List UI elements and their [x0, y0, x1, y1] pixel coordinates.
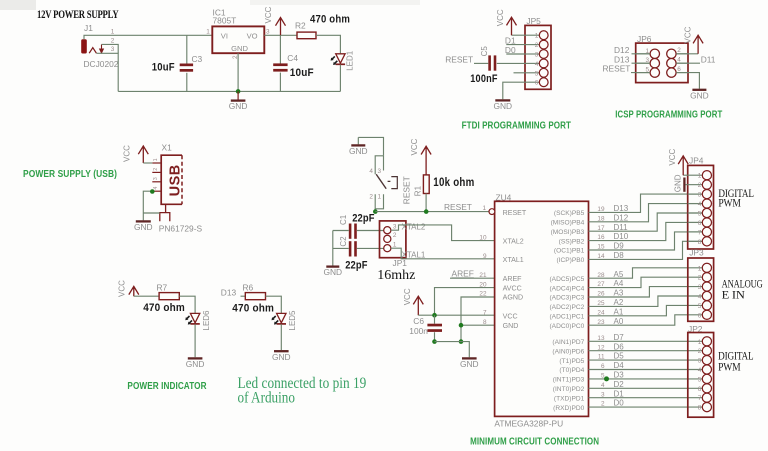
svg-text:(INT1)PD3: (INT1)PD3	[553, 377, 585, 384]
wire J1 pin1 to 7805 input (12V rail)	[84, 35, 212, 39]
svg-text:(INT0)PD2: (INT0)PD2	[553, 386, 585, 393]
svg-text:VCC: VCC	[264, 6, 273, 23]
svg-text:(AIN0)PD6: (AIN0)PD6	[552, 348, 584, 355]
svg-text:6: 6	[535, 80, 539, 87]
junction C6 to ground net	[432, 339, 437, 344]
svg-text:ICSP PROGRAMMING PORT: ICSP PROGRAMMING PORT	[615, 110, 722, 121]
svg-text:VCC: VCC	[684, 26, 693, 43]
svg-text:D12: D12	[614, 213, 629, 222]
svg-text:1: 1	[698, 173, 702, 180]
svg-text:10k ohm: 10k ohm	[433, 176, 474, 189]
svg-text:C1: C1	[339, 214, 348, 225]
resistor R7 470 ohm	[134, 295, 159, 297]
svg-text:A5: A5	[614, 270, 624, 279]
svg-text:(MISO)PB4: (MISO)PB4	[551, 220, 585, 227]
svg-text:VCC: VCC	[496, 9, 505, 26]
svg-text:VO: VO	[247, 32, 258, 41]
power symbol VCC power indicator	[129, 286, 139, 296]
svg-text:(ADC1)PC1: (ADC1)PC1	[549, 314, 584, 321]
svg-text:(SCK)PB5: (SCK)PB5	[554, 210, 585, 217]
svg-text:DCJ0202: DCJ0202	[84, 59, 119, 69]
svg-text:XTAL2: XTAL2	[402, 222, 426, 231]
svg-text:X1: X1	[162, 143, 173, 153]
svg-text:D7: D7	[614, 333, 625, 342]
svg-text:7: 7	[698, 395, 702, 402]
svg-text:J1: J1	[84, 23, 93, 33]
svg-text:2: 2	[677, 47, 681, 54]
svg-text:2: 2	[153, 168, 159, 171]
svg-text:(TXD)PD1: (TXD)PD1	[554, 395, 585, 402]
ground symbol at JP4 pin2 rotated	[686, 184, 688, 186]
svg-text:VCC: VCC	[410, 138, 419, 155]
svg-text:22pF: 22pF	[345, 259, 368, 271]
svg-text:D2: D2	[614, 380, 625, 389]
ground symbol below LED5	[274, 350, 289, 352]
ground symbol below C6	[462, 357, 477, 359]
svg-text:2: 2	[111, 37, 115, 44]
svg-text:(T1)PD5: (T1)PD5	[559, 358, 584, 365]
svg-text:2: 2	[698, 182, 702, 189]
junction X1 pin4	[150, 189, 155, 194]
svg-text:D8: D8	[614, 251, 625, 260]
junction AVCC VCC	[432, 313, 437, 318]
svg-text:(OC1)PB1: (OC1)PB1	[554, 248, 585, 255]
svg-text:22: 22	[479, 291, 487, 298]
power symbol VCC at ATMEGA	[413, 296, 423, 315]
svg-text:GND: GND	[323, 267, 342, 277]
svg-text:19: 19	[597, 206, 605, 213]
svg-text:6: 6	[601, 363, 605, 370]
svg-text:25: 25	[597, 300, 605, 307]
svg-text:C5: C5	[480, 46, 489, 57]
LED LED6	[190, 313, 199, 322]
svg-text:(RXD)PD0: (RXD)PD0	[553, 405, 584, 412]
svg-text:GND: GND	[690, 90, 709, 100]
LED LED5	[277, 313, 286, 322]
wire 7805 output 5V rail	[264, 34, 297, 36]
wire J1 pin3 to ground rail	[96, 53, 118, 91]
wire JP5 pin6 to ground	[503, 82, 525, 99]
svg-text:12V POWER SUPPLY: 12V POWER SUPPLY	[37, 9, 119, 21]
svg-text:A4: A4	[614, 279, 624, 288]
power symbol VCC at JP5 pin1	[512, 34, 526, 36]
power symbol VCC at JP6 pin2	[676, 53, 698, 55]
svg-text:FTDI PROGRAMMING PORT: FTDI PROGRAMMING PORT	[462, 121, 572, 132]
svg-text:17: 17	[597, 225, 605, 232]
svg-text:D3: D3	[614, 371, 625, 380]
svg-text:4: 4	[698, 201, 702, 208]
svg-text:R6: R6	[243, 283, 254, 293]
svg-text:GND: GND	[503, 322, 519, 330]
junction AGND GND	[459, 323, 464, 328]
svg-text:11: 11	[598, 354, 605, 361]
svg-text:24: 24	[597, 309, 605, 316]
svg-text:VCC: VCC	[123, 145, 132, 162]
capacitor C6 100n decoupling	[434, 315, 436, 324]
svg-text:7: 7	[698, 229, 702, 236]
svg-text:13: 13	[597, 335, 605, 342]
svg-text:3: 3	[698, 284, 702, 291]
svg-text:10: 10	[479, 234, 487, 241]
svg-text:470 ohm: 470 ohm	[143, 302, 185, 314]
svg-text:C4: C4	[287, 53, 298, 63]
svg-text:A0: A0	[614, 317, 624, 326]
ground net wire	[435, 342, 470, 358]
svg-text:4: 4	[601, 382, 605, 389]
svg-text:3: 3	[153, 177, 159, 180]
wire 7805 GND pin to ground rail	[237, 53, 239, 91]
svg-text:LED1: LED1	[346, 50, 355, 71]
svg-text:GND: GND	[493, 101, 512, 111]
capacitor C3 10uF	[186, 35, 188, 64]
svg-text:2: 2	[369, 194, 373, 201]
svg-text:1: 1	[698, 265, 702, 272]
LED LED1	[336, 54, 345, 63]
svg-text:2: 2	[601, 401, 605, 408]
svg-text:1: 1	[698, 339, 702, 346]
svg-text:27: 27	[597, 281, 605, 288]
svg-text:RESET: RESET	[503, 209, 527, 217]
svg-text:18: 18	[597, 215, 605, 222]
svg-text:E IN: E IN	[722, 290, 746, 302]
svg-text:ATMEGA328P-PU: ATMEGA328P-PU	[494, 418, 563, 428]
svg-text:26: 26	[597, 291, 605, 298]
svg-text:5: 5	[698, 376, 702, 383]
svg-text:4: 4	[369, 168, 373, 175]
resistor R1 10k ohm pullup	[423, 175, 429, 194]
wires A5-A0 from ATMEGA to JP3 with pin numbers	[589, 268, 703, 278]
wires D13-D8 from ATMEGA to JP4 with pin numbers	[589, 194, 703, 212]
svg-text:VCC: VCC	[503, 313, 518, 321]
svg-text:470 ohm: 470 ohm	[232, 303, 274, 315]
svg-text:A3: A3	[614, 289, 624, 298]
svg-text:8: 8	[698, 239, 702, 246]
svg-text:RESET: RESET	[402, 176, 412, 204]
svg-text:JP3: JP3	[689, 248, 704, 258]
X1 shield tab	[160, 204, 170, 221]
resistor R6 470 ohm	[241, 295, 246, 297]
wire VCC to X1 pin1	[143, 162, 152, 164]
wire XTAL2 JP1 pin3 to ATMEGA pin10	[391, 225, 495, 241]
power symbol VCC above R1	[421, 146, 431, 175]
svg-text:D10: D10	[614, 232, 629, 241]
svg-text:12: 12	[597, 344, 605, 351]
svg-text:3: 3	[601, 391, 605, 398]
svg-text:D11: D11	[614, 223, 629, 232]
wire reset switch top to ground	[358, 137, 383, 155]
svg-text:3: 3	[266, 28, 270, 35]
svg-text:3: 3	[535, 52, 539, 59]
svg-text:POWER SUPPLY (USB): POWER SUPPLY (USB)	[23, 169, 117, 180]
svg-text:D13: D13	[614, 204, 629, 213]
svg-text:XTAL1: XTAL1	[503, 256, 524, 264]
svg-text:POWER INDICATOR: POWER INDICATOR	[127, 381, 207, 392]
svg-text:1: 1	[153, 158, 159, 161]
svg-text:MINIMUM CIRCUIT CONNECTION: MINIMUM CIRCUIT CONNECTION	[470, 437, 599, 448]
svg-text:GND: GND	[186, 359, 205, 369]
svg-text:(ADC3)PC3: (ADC3)PC3	[549, 295, 584, 302]
svg-text:23: 23	[597, 319, 605, 326]
svg-text:1: 1	[111, 28, 115, 35]
svg-text:16mhz: 16mhz	[377, 268, 415, 283]
svg-text:4: 4	[153, 187, 159, 190]
svg-text:RESET: RESET	[445, 55, 473, 65]
svg-text:28: 28	[597, 272, 605, 279]
svg-text:AVCC: AVCC	[503, 284, 522, 292]
svg-text:1: 1	[378, 194, 382, 201]
svg-text:6: 6	[698, 386, 702, 393]
svg-text:A2: A2	[614, 298, 624, 307]
ATMEGA pin 1 RESET with bubble	[489, 209, 495, 215]
svg-text:D5: D5	[614, 352, 625, 361]
junction ground rail at 7805	[236, 89, 241, 94]
svg-text:(ADC2)PC2: (ADC2)PC2	[549, 304, 584, 311]
wire C1 C2 to ground	[332, 231, 334, 266]
svg-text:3: 3	[378, 168, 382, 175]
svg-text:D4: D4	[614, 361, 625, 370]
svg-text:5: 5	[698, 211, 702, 218]
svg-text:R2: R2	[295, 21, 306, 31]
svg-text:22pF: 22pF	[352, 212, 375, 224]
ground symbol below JP6	[692, 89, 706, 91]
svg-text:2: 2	[698, 348, 702, 355]
svg-text:RESET: RESET	[444, 202, 472, 212]
svg-text:6: 6	[698, 220, 702, 227]
capacitor C5 100nF to JP5 pin4	[497, 62, 525, 64]
wire VCC to ATMEGA pin7	[418, 314, 494, 316]
power symbol VCC for USB	[138, 146, 148, 163]
svg-text:21: 21	[479, 272, 487, 279]
svg-text:A1: A1	[614, 307, 624, 316]
junction R1 to RESET net	[424, 209, 429, 214]
svg-text:R1: R1	[413, 185, 422, 196]
ground rail bottom of power supply	[118, 90, 340, 92]
capacitor C4 10uF	[279, 35, 281, 64]
svg-text:14: 14	[597, 253, 605, 260]
svg-text:2: 2	[698, 275, 702, 282]
svg-text:8: 8	[483, 319, 487, 326]
wire R2 to LED1	[316, 35, 340, 53]
svg-text:XTAL1: XTAL1	[402, 251, 426, 260]
svg-text:100n: 100n	[409, 326, 428, 336]
stub JP5 pin5	[514, 72, 526, 74]
svg-text:9: 9	[483, 253, 487, 260]
svg-text:PN61729-S: PN61729-S	[159, 223, 203, 233]
svg-text:15: 15	[597, 244, 605, 251]
reset push button S1	[375, 156, 383, 174]
wire AGND pin22 to ground net	[461, 297, 495, 342]
svg-text:GND: GND	[272, 352, 291, 362]
svg-text:AREF: AREF	[503, 275, 523, 283]
svg-text:(ADC4)PC4: (ADC4)PC4	[549, 285, 584, 292]
svg-text:1: 1	[393, 242, 397, 249]
wire JP6 pin6 to ground	[676, 73, 699, 89]
svg-text:5: 5	[535, 70, 539, 77]
svg-text:JP4: JP4	[689, 156, 704, 166]
svg-text:AGND: AGND	[503, 294, 523, 302]
svg-text:LED5: LED5	[288, 310, 297, 331]
svg-text:6: 6	[698, 312, 702, 319]
svg-text:(ADC0)PC0: (ADC0)PC0	[549, 323, 584, 330]
svg-text:3: 3	[698, 358, 702, 365]
svg-text:D13: D13	[221, 287, 237, 297]
ground symbol below C1 C2	[326, 265, 339, 267]
svg-text:(SS)PB2: (SS)PB2	[559, 238, 585, 245]
svg-text:4: 4	[677, 57, 681, 64]
net stub D13 at JP6 pin3	[632, 62, 651, 64]
power symbol VCC at 5V rail	[276, 18, 286, 36]
svg-text:GND: GND	[229, 101, 248, 111]
svg-text:GND: GND	[349, 146, 368, 156]
svg-text:VCC: VCC	[117, 280, 126, 297]
wire J1 pin2 stub	[102, 44, 119, 53]
svg-text:7805T: 7805T	[213, 16, 237, 26]
svg-text:GND: GND	[134, 222, 153, 232]
wires D7-D0 from ATMEGA to JP2 with pin numbers	[589, 340, 703, 342]
svg-text:VCC: VCC	[668, 148, 677, 165]
svg-text:4: 4	[535, 61, 539, 68]
svg-text:7: 7	[483, 310, 487, 317]
svg-text:AREF: AREF	[452, 268, 474, 278]
svg-text:(AIN1)PD7: (AIN1)PD7	[552, 339, 584, 346]
svg-text:5: 5	[698, 303, 702, 310]
wire R6 to LED5	[266, 296, 282, 313]
svg-text:D0: D0	[505, 45, 516, 55]
svg-text:VI: VI	[221, 32, 228, 41]
wire AVCC pin20 to VCC net	[435, 288, 495, 316]
svg-text:D1: D1	[614, 389, 625, 398]
svg-text:VCC: VCC	[403, 288, 412, 305]
net stub D1 at JP5 pin2	[506, 44, 525, 46]
svg-text:XTAL2: XTAL2	[503, 237, 524, 245]
svg-text:1: 1	[483, 205, 487, 212]
RESET net wire to ATMEGA pin 1	[375, 211, 489, 213]
svg-text:3: 3	[698, 192, 702, 199]
svg-text:(ADC5)PC5: (ADC5)PC5	[549, 276, 584, 283]
svg-text:(ICP)PB0: (ICP)PB0	[556, 257, 584, 264]
svg-text:GND: GND	[231, 44, 248, 53]
svg-text:D9: D9	[614, 242, 625, 251]
svg-text:LED6: LED6	[202, 310, 211, 331]
svg-text:USB: USB	[168, 164, 184, 196]
svg-text:8: 8	[698, 405, 702, 412]
power symbol VCC at JP4 pin1	[683, 174, 688, 176]
svg-text:of Arduino: of Arduino	[238, 390, 296, 407]
net stub RESET at JP6 pin5	[631, 72, 650, 74]
wire XTAL1 JP1 pin1 to ATMEGA pin9	[391, 248, 495, 259]
ground symbol below JP5	[495, 99, 510, 101]
svg-text:JP5: JP5	[526, 16, 541, 26]
wire R7 to LED6	[179, 296, 195, 313]
svg-text:10uF: 10uF	[290, 67, 314, 79]
svg-text:16: 16	[597, 234, 605, 241]
svg-text:6: 6	[677, 66, 681, 73]
svg-text:JP1: JP1	[393, 258, 408, 268]
svg-text:C2: C2	[339, 236, 348, 247]
svg-text:(MOSI)PB3: (MOSI)PB3	[551, 229, 585, 236]
svg-text:1: 1	[535, 33, 539, 40]
svg-text:D0: D0	[614, 399, 625, 408]
svg-text:D6: D6	[614, 342, 625, 351]
svg-text:R7: R7	[157, 283, 168, 293]
svg-text:C6: C6	[413, 316, 424, 326]
svg-text:GND: GND	[460, 359, 479, 369]
wire GND pin8 to ground net	[461, 324, 495, 326]
svg-text:PWM: PWM	[718, 198, 740, 210]
svg-text:10uF: 10uF	[152, 62, 175, 74]
ground symbol below 7805	[237, 91, 239, 99]
ground symbol below X1	[136, 220, 151, 222]
junction on D3 wire	[604, 376, 609, 381]
svg-text:D11: D11	[701, 55, 716, 65]
svg-text:RESET: RESET	[603, 64, 631, 74]
net stub D11 at JP6 pin4	[676, 62, 700, 64]
svg-text:GND: GND	[674, 174, 683, 192]
net stub D12 at JP6 pin1	[632, 53, 651, 55]
svg-text:20: 20	[479, 281, 487, 288]
wire X1 pin4 to ground	[143, 191, 152, 220]
ground symbol below LED6	[188, 357, 203, 359]
svg-text:4: 4	[698, 294, 702, 301]
svg-text:1: 1	[206, 28, 210, 35]
svg-text:2: 2	[393, 232, 397, 239]
junction reset switch to RESET net	[373, 209, 378, 214]
svg-text:3: 3	[111, 46, 115, 53]
svg-text:(T0)PD4: (T0)PD4	[559, 367, 584, 374]
svg-text:470 ohm: 470 ohm	[310, 14, 350, 26]
svg-text:2: 2	[535, 42, 539, 49]
svg-text:4: 4	[698, 367, 702, 374]
svg-text:PWM: PWM	[718, 362, 740, 374]
ground symbol at reset switch	[357, 137, 359, 144]
crystal header JP1 16mhz	[380, 221, 406, 258]
svg-text:3: 3	[393, 223, 397, 230]
net stub D0 at JP5 pin3	[506, 53, 525, 55]
svg-text:100nF: 100nF	[470, 73, 498, 85]
svg-text:C3: C3	[192, 54, 203, 64]
